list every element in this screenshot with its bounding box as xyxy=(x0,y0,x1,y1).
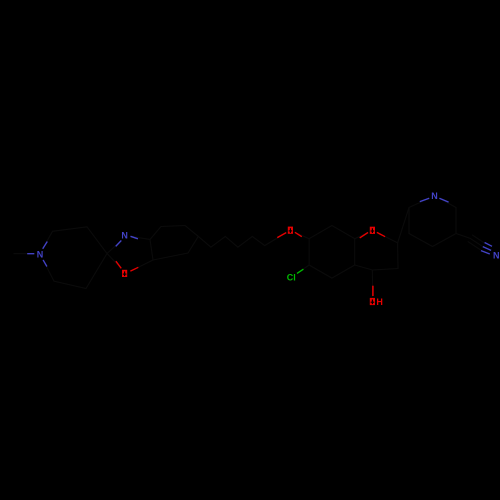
svg-text:N: N xyxy=(37,250,44,260)
svg-text:N: N xyxy=(121,230,128,240)
svg-text:H: H xyxy=(376,297,383,307)
svg-text:N: N xyxy=(493,250,500,260)
svg-text:Cl: Cl xyxy=(287,273,296,283)
svg-text:N: N xyxy=(431,191,438,201)
